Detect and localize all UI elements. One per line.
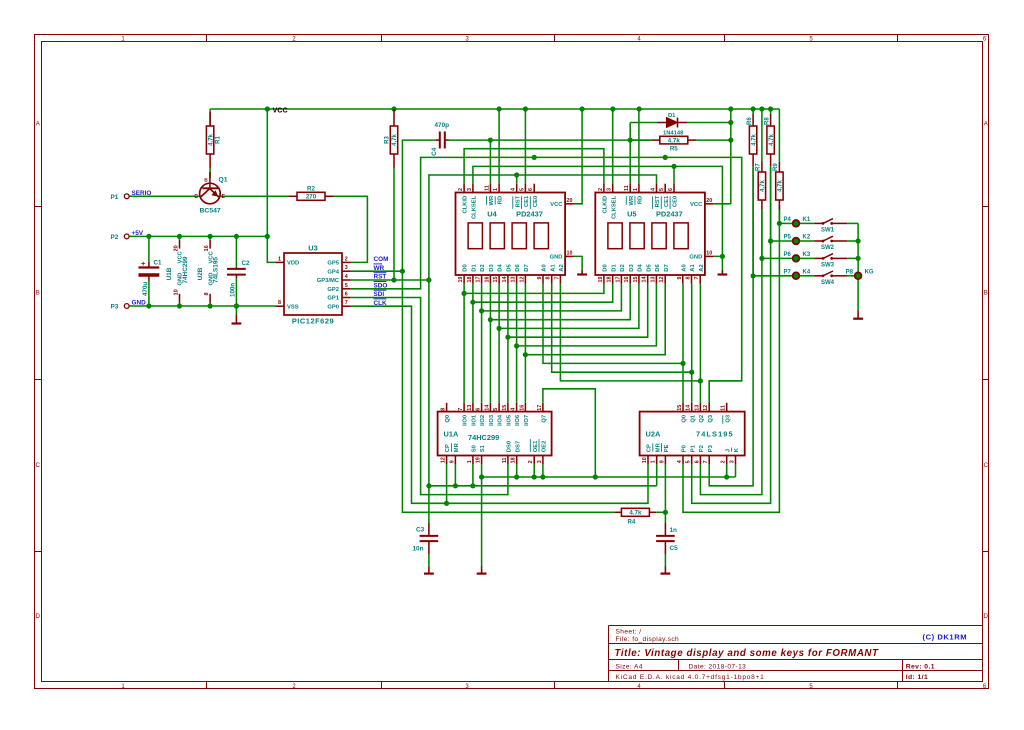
display U4 PD2437 bbox=[456, 184, 574, 284]
svg-text:U2B: U2B bbox=[197, 267, 204, 280]
svg-text:1: 1 bbox=[651, 460, 657, 463]
svg-text:D5: D5 bbox=[646, 264, 652, 272]
svg-text:14: 14 bbox=[484, 405, 490, 411]
wire pin to JK run bbox=[726, 464, 728, 477]
svg-text:1: 1 bbox=[278, 256, 281, 262]
power pins U2B 74LS195 bbox=[197, 236, 220, 306]
svg-text:VCC: VCC bbox=[690, 202, 703, 208]
wire U2A Q3 to SDO vertical bbox=[709, 381, 742, 403]
wire WR net up to C4 bbox=[402, 140, 436, 271]
wire data bus D7 bbox=[524, 284, 526, 403]
wire pin to RST run bbox=[472, 464, 474, 486]
svg-text:100n: 100n bbox=[229, 283, 236, 297]
svg-text:D6: D6 bbox=[655, 264, 661, 272]
junction on VCC rail bbox=[728, 106, 733, 111]
svg-text:4.7k: 4.7k bbox=[629, 510, 642, 517]
junction on JK run bbox=[514, 474, 519, 479]
svg-text:GND: GND bbox=[689, 255, 702, 261]
svg-text:4,7k: 4,7k bbox=[760, 180, 766, 192]
capacitor C4 470p bbox=[431, 122, 449, 156]
svg-text:C4: C4 bbox=[431, 147, 438, 156]
svg-text:R9: R9 bbox=[773, 163, 779, 171]
svg-text:Q0: Q0 bbox=[682, 415, 688, 423]
svg-text:D4: D4 bbox=[638, 264, 644, 272]
svg-text:D: D bbox=[36, 614, 41, 620]
junction gnd strap at U5 CE0 bbox=[671, 164, 676, 169]
svg-text:15: 15 bbox=[633, 277, 639, 283]
wire WR net vertical down to R4 run bbox=[402, 271, 614, 512]
svg-text:RD: RD bbox=[498, 196, 504, 204]
svg-text:20: 20 bbox=[173, 245, 179, 251]
svg-text:CLK: CLK bbox=[374, 300, 388, 307]
svg-text:U1A: U1A bbox=[444, 430, 459, 439]
svg-text:Sheet: /: Sheet: / bbox=[616, 629, 642, 636]
svg-text:1: 1 bbox=[493, 188, 499, 191]
wire pin to JK run bbox=[533, 464, 535, 477]
power pins U1B 74HC299 bbox=[166, 236, 189, 306]
svg-text:3: 3 bbox=[730, 460, 736, 463]
svg-text:E: E bbox=[222, 194, 226, 200]
svg-text:C1: C1 bbox=[154, 260, 162, 267]
junction on VCC rail bbox=[768, 106, 773, 111]
svg-text:8: 8 bbox=[204, 292, 210, 295]
junction on VCC rail bbox=[523, 106, 528, 111]
junction on JK run bbox=[532, 474, 537, 479]
junction on VCC rail bbox=[580, 106, 585, 111]
svg-text:15: 15 bbox=[677, 405, 683, 411]
svg-text:CLKID: CLKID bbox=[463, 196, 469, 214]
svg-text:Size: A4: Size: A4 bbox=[616, 664, 643, 671]
junction on GND rail bbox=[208, 303, 213, 308]
svg-text:I/O1: I/O1 bbox=[472, 414, 478, 426]
svg-text:4,7k: 4,7k bbox=[751, 134, 757, 146]
svg-text:13: 13 bbox=[467, 405, 473, 411]
junction on JK run bbox=[540, 474, 545, 479]
svg-text:16: 16 bbox=[204, 245, 210, 251]
svg-text:12: 12 bbox=[659, 277, 665, 283]
wire +5V to C1 bbox=[148, 236, 150, 262]
svg-text:2: 2 bbox=[458, 188, 464, 191]
capacitor C1 470u bbox=[139, 259, 162, 296]
svg-text:K1: K1 bbox=[803, 217, 811, 223]
junction U5 GND pin bbox=[720, 254, 725, 259]
wire U5 CE0 pin up bbox=[673, 166, 675, 183]
svg-text:I/O4: I/O4 bbox=[498, 414, 504, 426]
svg-text:17: 17 bbox=[615, 277, 621, 283]
svg-text:D1: D1 bbox=[611, 264, 617, 272]
svg-text:S1: S1 bbox=[480, 444, 486, 452]
wire data bus D4 bbox=[498, 284, 500, 403]
svg-text:19: 19 bbox=[476, 457, 482, 463]
svg-text:12: 12 bbox=[441, 457, 447, 463]
svg-text:SERIO: SERIO bbox=[132, 190, 152, 197]
svg-text:D3: D3 bbox=[489, 264, 495, 272]
svg-text:4: 4 bbox=[677, 460, 683, 463]
connector P7 bbox=[784, 269, 800, 279]
junction SDO at U5 CE1 bbox=[663, 155, 668, 160]
svg-text:18: 18 bbox=[607, 277, 613, 283]
svg-text:3: 3 bbox=[537, 460, 543, 463]
capacitor C2 100n bbox=[227, 260, 250, 297]
svg-text:2: 2 bbox=[598, 188, 604, 191]
wire P6 to switch bbox=[800, 257, 815, 259]
svg-text:I/O3: I/O3 bbox=[489, 414, 495, 426]
svg-text:5: 5 bbox=[659, 188, 665, 191]
wire RST net up and across bbox=[429, 175, 657, 280]
junction WR run at U5 WR / D1 bbox=[628, 138, 633, 143]
svg-text:R6: R6 bbox=[747, 117, 753, 125]
svg-text:6: 6 bbox=[476, 408, 482, 411]
diode D1 1N4148 bbox=[630, 113, 731, 137]
connector P8 KG bbox=[846, 269, 874, 279]
svg-text:D5: D5 bbox=[507, 264, 513, 272]
svg-text:PIC12F629: PIC12F629 bbox=[292, 317, 334, 326]
wire data bus D6 bbox=[516, 284, 518, 403]
wire RST bottom run bbox=[428, 280, 430, 486]
svg-text:U2A: U2A bbox=[646, 430, 661, 439]
wire VCC to R7 bbox=[761, 109, 763, 162]
ground under C2 bbox=[232, 315, 242, 324]
svg-text:P8: P8 bbox=[846, 269, 854, 275]
wire U5 CLKSEL to VCC bbox=[612, 109, 614, 184]
svg-text:S0: S0 bbox=[472, 445, 478, 452]
svg-text:File: fo_display.sch: File: fo_display.sch bbox=[616, 636, 680, 643]
svg-text:GP2: GP2 bbox=[327, 287, 339, 293]
wire K row K2 left bbox=[771, 240, 793, 242]
switch SW3 bbox=[814, 254, 847, 269]
ground under U4 bbox=[577, 270, 587, 275]
wire U4 CLKSEL to gnd strap run bbox=[473, 166, 723, 256]
resistor R7 4,7k bbox=[756, 162, 766, 210]
wire VCC to +5V and U3 VDD bbox=[267, 109, 275, 262]
svg-text:Q1: Q1 bbox=[690, 414, 696, 423]
svg-text:CLKID: CLKID bbox=[603, 196, 609, 214]
junction on VCC rail bbox=[497, 106, 502, 111]
svg-text:PD2437: PD2437 bbox=[516, 210, 543, 219]
wire data bus D2 bbox=[481, 284, 483, 403]
svg-text:20: 20 bbox=[567, 198, 573, 204]
svg-text:A: A bbox=[36, 122, 40, 128]
svg-text:2: 2 bbox=[721, 460, 727, 463]
svg-text:4,7k: 4,7k bbox=[392, 134, 398, 146]
svg-text:470p: 470p bbox=[435, 122, 450, 129]
junction on JK run bbox=[479, 474, 484, 479]
connector P1 bbox=[111, 194, 130, 201]
wire pin to JK run bbox=[542, 464, 544, 477]
svg-text:SW2: SW2 bbox=[821, 245, 835, 251]
wire U3 RST row bbox=[351, 279, 429, 281]
svg-text:CLKSEL: CLKSEL bbox=[611, 195, 617, 219]
svg-text:P4: P4 bbox=[784, 217, 792, 223]
wire VCC column right of U5 bbox=[730, 109, 732, 204]
wire data bus D3 bbox=[489, 284, 491, 403]
ground under U5 bbox=[718, 270, 728, 275]
svg-text:2: 2 bbox=[528, 460, 534, 463]
junction K row 1 bbox=[768, 238, 773, 243]
svg-text:VSS: VSS bbox=[287, 304, 299, 310]
ground under C3 bbox=[424, 567, 434, 574]
svg-text:18: 18 bbox=[511, 457, 517, 463]
junction on +5V rail bbox=[208, 234, 213, 239]
wire U2A P2 to switch column bbox=[700, 258, 762, 494]
svg-text:(C) DK1RM: (C) DK1RM bbox=[923, 633, 968, 642]
svg-text:A1: A1 bbox=[690, 264, 696, 272]
svg-text:12: 12 bbox=[519, 277, 525, 283]
svg-text:C5: C5 bbox=[670, 545, 679, 552]
svg-text:C: C bbox=[984, 463, 989, 469]
svg-text:Id: 1/1: Id: 1/1 bbox=[906, 674, 928, 681]
ground under S1 bbox=[477, 567, 487, 574]
svg-text:7: 7 bbox=[554, 277, 560, 280]
wire U4 CE1 to VCC bbox=[524, 109, 526, 184]
svg-text:Q1: Q1 bbox=[219, 177, 228, 184]
svg-text:16: 16 bbox=[484, 277, 490, 283]
svg-text:K2: K2 bbox=[803, 235, 811, 241]
junction on +5V rail bbox=[177, 234, 182, 239]
switch SW2 bbox=[814, 236, 847, 251]
svg-text:A2: A2 bbox=[699, 264, 705, 271]
op-amp U3 PIC12F629 bbox=[275, 244, 350, 326]
svg-text:SW3: SW3 bbox=[821, 262, 835, 268]
svg-text:11: 11 bbox=[502, 458, 508, 464]
wire C2 to GND rail and ground bbox=[235, 278, 237, 315]
wire P1 SERIO to Q1 collector bbox=[129, 195, 200, 197]
resistor R9 4,7k bbox=[773, 162, 783, 210]
svg-text:R5: R5 bbox=[670, 146, 678, 153]
svg-text:12: 12 bbox=[703, 405, 709, 411]
svg-text:13: 13 bbox=[650, 277, 656, 283]
svg-text:D0: D0 bbox=[463, 264, 469, 271]
svg-text:C: C bbox=[36, 463, 41, 469]
svg-text:13: 13 bbox=[694, 405, 700, 411]
svg-text:WR: WR bbox=[489, 195, 495, 205]
svg-text:CE1: CE1 bbox=[524, 195, 530, 207]
wire VCC to R9 bbox=[778, 109, 780, 162]
wire +5V to C2 bbox=[235, 236, 237, 266]
svg-text:D4: D4 bbox=[498, 264, 504, 272]
wire data bus D5 bbox=[507, 284, 509, 403]
wire R6 down bbox=[752, 166, 754, 276]
wire K row K3 left bbox=[762, 257, 793, 259]
svg-text:2: 2 bbox=[345, 256, 348, 262]
wire VCC rail to R1 bbox=[209, 109, 211, 126]
svg-text:8: 8 bbox=[278, 300, 281, 306]
connector P3 bbox=[111, 304, 130, 311]
capacitor C5 1n bbox=[656, 523, 678, 554]
svg-text:SW1: SW1 bbox=[821, 227, 835, 233]
svg-text:R4: R4 bbox=[627, 519, 635, 526]
svg-text:13: 13 bbox=[511, 277, 517, 283]
junction on VCC rail bbox=[637, 106, 642, 111]
shift register U2A 74LS195 bbox=[640, 403, 745, 465]
resistor R1 4,7k bbox=[206, 112, 221, 168]
svg-text:U1B: U1B bbox=[166, 267, 173, 280]
wire R9 down bbox=[778, 210, 780, 223]
svg-text:74LS195: 74LS195 bbox=[213, 257, 220, 283]
svg-text:6: 6 bbox=[668, 188, 674, 191]
svg-text:VCC: VCC bbox=[273, 105, 288, 114]
svg-text:P1: P1 bbox=[690, 444, 696, 452]
transistor Q1 BC547 bbox=[194, 172, 228, 215]
wire U3 WR row bbox=[351, 270, 403, 272]
svg-text:74LS195: 74LS195 bbox=[696, 430, 734, 439]
ground under C5 bbox=[661, 567, 671, 574]
svg-text:10: 10 bbox=[173, 289, 179, 295]
svg-text:4,7k: 4,7k bbox=[778, 180, 784, 192]
svg-text:20: 20 bbox=[706, 198, 712, 204]
connector P2 bbox=[111, 234, 130, 241]
svg-text:6: 6 bbox=[345, 292, 348, 298]
svg-text:R8: R8 bbox=[764, 117, 770, 125]
wire R4 junction to C5 bbox=[664, 512, 666, 523]
junction RST at U4 RST bbox=[514, 172, 519, 177]
svg-text:14: 14 bbox=[686, 405, 692, 411]
svg-text:P2: P2 bbox=[699, 445, 705, 452]
svg-text:5: 5 bbox=[519, 188, 525, 191]
svg-text:+5V: +5V bbox=[132, 230, 144, 237]
wire U2A P1 to switch column bbox=[692, 241, 771, 503]
wire U2A P0 to switch column bbox=[683, 223, 779, 512]
svg-text:GP4: GP4 bbox=[327, 269, 339, 275]
svg-text:10: 10 bbox=[706, 250, 712, 256]
svg-text:P5: P5 bbox=[784, 235, 792, 241]
wire PE pin down bbox=[664, 464, 666, 512]
resistor R8 4,7k bbox=[764, 114, 774, 166]
wire pullup R to K row bbox=[770, 168, 772, 242]
wire +5V rail bbox=[129, 235, 267, 237]
svg-text:K3: K3 bbox=[803, 252, 811, 258]
svg-text:R1: R1 bbox=[216, 136, 222, 144]
junction on VCC rail bbox=[751, 106, 756, 111]
wire pin to JK run bbox=[516, 464, 518, 477]
svg-text:D2: D2 bbox=[480, 264, 486, 271]
svg-text:A: A bbox=[984, 122, 988, 128]
svg-text:Rev: 0.1: Rev: 0.1 bbox=[906, 664, 935, 671]
junction Q7 at JK run bbox=[593, 474, 598, 479]
svg-text:15: 15 bbox=[502, 405, 508, 411]
svg-text:10: 10 bbox=[642, 457, 648, 463]
svg-text:74HC299: 74HC299 bbox=[182, 256, 189, 283]
svg-text:I/O0: I/O0 bbox=[463, 415, 469, 426]
svg-text:8: 8 bbox=[546, 277, 552, 280]
resistor R6 4,7k bbox=[747, 114, 757, 166]
power flag VCC bbox=[265, 105, 288, 114]
wire U2A J pin bbox=[726, 464, 728, 477]
junction common K2 bbox=[856, 238, 861, 243]
svg-text:17: 17 bbox=[476, 277, 482, 283]
svg-text:4,7k: 4,7k bbox=[769, 134, 775, 146]
svg-text:A0: A0 bbox=[681, 264, 687, 271]
junction K row 0 bbox=[777, 221, 782, 226]
wire U4 WR pin up bbox=[489, 140, 491, 184]
wire switch SW2 to common bbox=[847, 240, 858, 242]
resistor R5 4.7k bbox=[630, 136, 731, 152]
svg-text:GND: GND bbox=[550, 255, 563, 261]
wire P7 to switch bbox=[800, 275, 815, 277]
wire R3 to RST row bbox=[393, 168, 395, 280]
svg-text:C: C bbox=[194, 194, 198, 200]
svg-text:Q3: Q3 bbox=[708, 414, 714, 423]
wire RST run to C3 bbox=[428, 486, 430, 523]
junction on JK run bbox=[724, 474, 729, 479]
svg-text:19: 19 bbox=[458, 277, 464, 283]
svg-text:CP: CP bbox=[647, 444, 653, 452]
wire VCC to R6 bbox=[752, 109, 754, 114]
resistor R3 4,7k bbox=[385, 112, 399, 168]
svg-text:CE0: CE0 bbox=[673, 196, 679, 207]
svg-text:RST: RST bbox=[515, 195, 521, 207]
svg-text:RST: RST bbox=[655, 195, 661, 207]
svg-text:4: 4 bbox=[511, 188, 517, 191]
svg-text:9: 9 bbox=[677, 277, 683, 280]
wire U1A Q7 to JK run bbox=[543, 389, 595, 477]
junction on GND rail bbox=[234, 303, 239, 308]
svg-text:10: 10 bbox=[567, 250, 573, 256]
wire GND rail bbox=[129, 305, 275, 307]
wire U5 GND pin10 bbox=[714, 256, 723, 270]
wire pullup R to K row bbox=[752, 168, 754, 276]
svg-text:DS0: DS0 bbox=[507, 441, 513, 452]
wire U4 RST pin up bbox=[516, 175, 518, 184]
ground under switches bbox=[853, 311, 863, 319]
junction on +5V rail bbox=[146, 234, 151, 239]
svg-text:5: 5 bbox=[493, 408, 499, 411]
svg-text:270: 270 bbox=[306, 194, 317, 201]
wire R8 down bbox=[770, 166, 772, 241]
wire VCC to R8 bbox=[770, 109, 772, 114]
wire VCC to R3 bbox=[393, 109, 395, 112]
wire data bus D1 bbox=[472, 284, 474, 403]
svg-text:P6: P6 bbox=[784, 252, 792, 258]
wire pullup R to K row bbox=[761, 211, 763, 258]
wire U2A P3 to switch column bbox=[709, 276, 753, 486]
wire switch common vertical bbox=[857, 223, 859, 310]
wire U4 VCC pin20 bbox=[574, 109, 582, 204]
svg-text:CE1: CE1 bbox=[664, 195, 670, 207]
wire U5 RD to VCC bbox=[638, 109, 640, 184]
wire C5 to ground bbox=[664, 554, 666, 567]
svg-text:4.7k: 4.7k bbox=[668, 137, 681, 144]
svg-text:GP5: GP5 bbox=[327, 261, 339, 267]
svg-text:14: 14 bbox=[502, 277, 508, 283]
switch SW1 bbox=[814, 219, 847, 234]
svg-text:SW4: SW4 bbox=[821, 280, 835, 286]
svg-text:P3: P3 bbox=[708, 444, 714, 452]
svg-text:I/O2: I/O2 bbox=[480, 415, 486, 426]
wire VCC rail bbox=[210, 108, 779, 110]
wire S1/DS7/OE JK run bbox=[482, 476, 736, 478]
junction CLK at U1A CP bbox=[444, 501, 449, 506]
wire U3 SDO row to run bbox=[351, 157, 742, 403]
wire R4 to PE junction bbox=[656, 511, 665, 513]
svg-text:OE2: OE2 bbox=[542, 441, 548, 453]
junction K row 2 bbox=[759, 256, 764, 261]
shift register U1A 74HC299 bbox=[438, 403, 552, 465]
junction WR run at U4 WR bbox=[488, 138, 493, 143]
capacitor C3 10n bbox=[413, 523, 439, 554]
svg-text:3: 3 bbox=[345, 265, 348, 271]
svg-text:GP3/MC: GP3/MC bbox=[317, 278, 340, 284]
wire address A2 bbox=[560, 284, 700, 381]
svg-text:16: 16 bbox=[519, 405, 525, 411]
svg-text:3: 3 bbox=[607, 188, 613, 191]
svg-text:D1: D1 bbox=[668, 113, 676, 119]
wire P4 to switch bbox=[800, 222, 815, 224]
svg-text:WR: WR bbox=[629, 195, 635, 205]
svg-text:11: 11 bbox=[484, 185, 490, 191]
svg-text:MR: MR bbox=[655, 442, 661, 452]
wire P5 to switch bbox=[800, 240, 815, 242]
